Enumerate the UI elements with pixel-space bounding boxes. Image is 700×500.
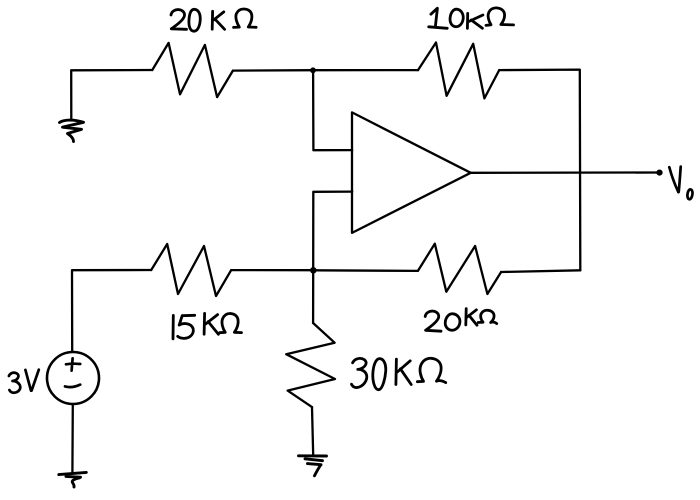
wire R2 to right rail, down to R4 (feedback rail) [499,70,580,271]
resistor R2 10 kOhm (feedback, top right) [418,43,499,99]
ground (top left) [60,120,84,141]
label 20 KOhm for R1 [171,9,256,31]
wire R3 to node B [231,269,313,271]
node A (inverting input net junction) [310,67,316,73]
label 3V [9,370,39,393]
plus sign of V1 [66,358,80,370]
resistor R1 20 kOhm (top left) [152,43,233,97]
node B (non-inverting input net junction) [310,267,317,274]
wire R1 to node A [233,69,313,72]
wire R5 bottom to ground [312,407,313,455]
wire R4 to right rail corner [501,270,580,272]
node Vo terminal dot [656,170,662,176]
op-amp U1 triangle [352,112,471,232]
wire source V1 down to ground [71,404,74,473]
resistor R4 20 kOhm (bottom right) [418,244,501,294]
wire node A down to op-amp inverting input stub [313,70,352,150]
source V1 3V circle [47,352,99,404]
label 15 KOhm for R3 [173,313,242,338]
resistor R3 15 kOhm (bottom left) [151,244,231,296]
label 20 kOhm for R4 [425,309,497,332]
wire left-top: ground riser and lead to R1 [71,70,152,120]
wire source V1 up and lead to R3 [72,270,151,352]
resistor R5 30 kOhm (vertical) [286,323,335,407]
label Vo [669,167,692,200]
label 30 KOhm for R5 [352,358,446,389]
ground (below R5) [299,456,327,476]
label 10 kOhm for R2 [429,8,514,28]
wire node B to R4 [313,269,418,272]
minus sign of V1 [65,385,80,387]
wire node A to R2 [313,69,418,71]
wire op-amp output to Vo terminal [471,171,659,174]
ground (below V1) [59,472,87,487]
wire op-amp non-inverting stub down to node B [313,192,352,271]
wire node B down to R5 [312,270,314,323]
